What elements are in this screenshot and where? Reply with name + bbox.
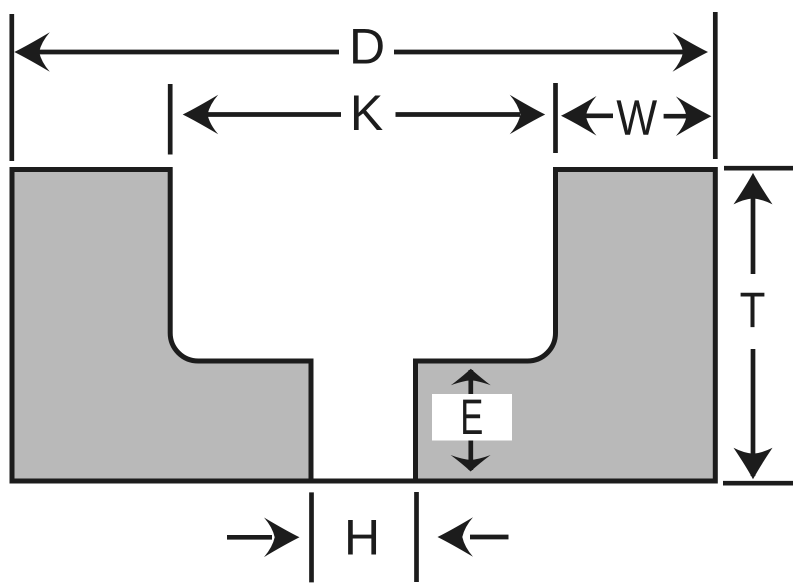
dimension D right extension line	[713, 12, 718, 159]
dimension T down arrowhead	[734, 448, 773, 480]
dimension D right arrowhead	[673, 32, 709, 72]
dimension W right shaft	[664, 114, 690, 119]
label E	[463, 400, 482, 434]
dimension E shaft	[468, 370, 473, 470]
dimension E up arrowhead	[451, 369, 491, 386]
dimension K right extension tick	[553, 83, 558, 153]
dimension T lower shaft	[751, 349, 756, 476]
wheel cross-section left half	[12, 170, 311, 482]
dimension T top tick	[724, 166, 793, 171]
dimension K right shaft	[396, 112, 521, 117]
dimension E label background box	[432, 394, 512, 441]
dimension H right arrowhead pointing left	[438, 517, 474, 557]
dimension T bottom tick	[723, 481, 793, 486]
dimension K left extension tick	[168, 84, 173, 155]
dimension H left extension line	[309, 492, 314, 582]
dimension H left shaft	[227, 535, 272, 540]
dimension E down arrowhead	[451, 455, 491, 472]
dimension D left arrowhead	[14, 32, 50, 72]
wheel cross-section right half	[416, 170, 716, 482]
dimension D left extension line	[9, 14, 14, 161]
dimension T up arrowhead	[734, 173, 773, 205]
dimension H right extension line	[414, 492, 419, 582]
label T	[741, 293, 765, 327]
dimension H left arrowhead pointing right	[264, 518, 300, 558]
svg-text:D: D	[349, 19, 385, 75]
dimension H right shaft	[470, 535, 509, 540]
label W	[617, 100, 658, 134]
dimension T upper shaft	[751, 198, 756, 274]
svg-text:K: K	[350, 85, 383, 141]
dimension W left shaft	[583, 113, 613, 118]
bottom edge line across bore	[309, 479, 418, 484]
svg-text:H: H	[344, 510, 380, 566]
dimension W right arrowhead	[676, 96, 712, 136]
dimension K left shaft	[205, 112, 341, 117]
dimension D left shaft	[30, 50, 339, 55]
dimension K left arrowhead	[183, 95, 219, 135]
dimension D right shaft	[394, 50, 700, 55]
dimension K right arrowhead	[510, 95, 546, 135]
dimension W left arrowhead	[561, 96, 597, 136]
